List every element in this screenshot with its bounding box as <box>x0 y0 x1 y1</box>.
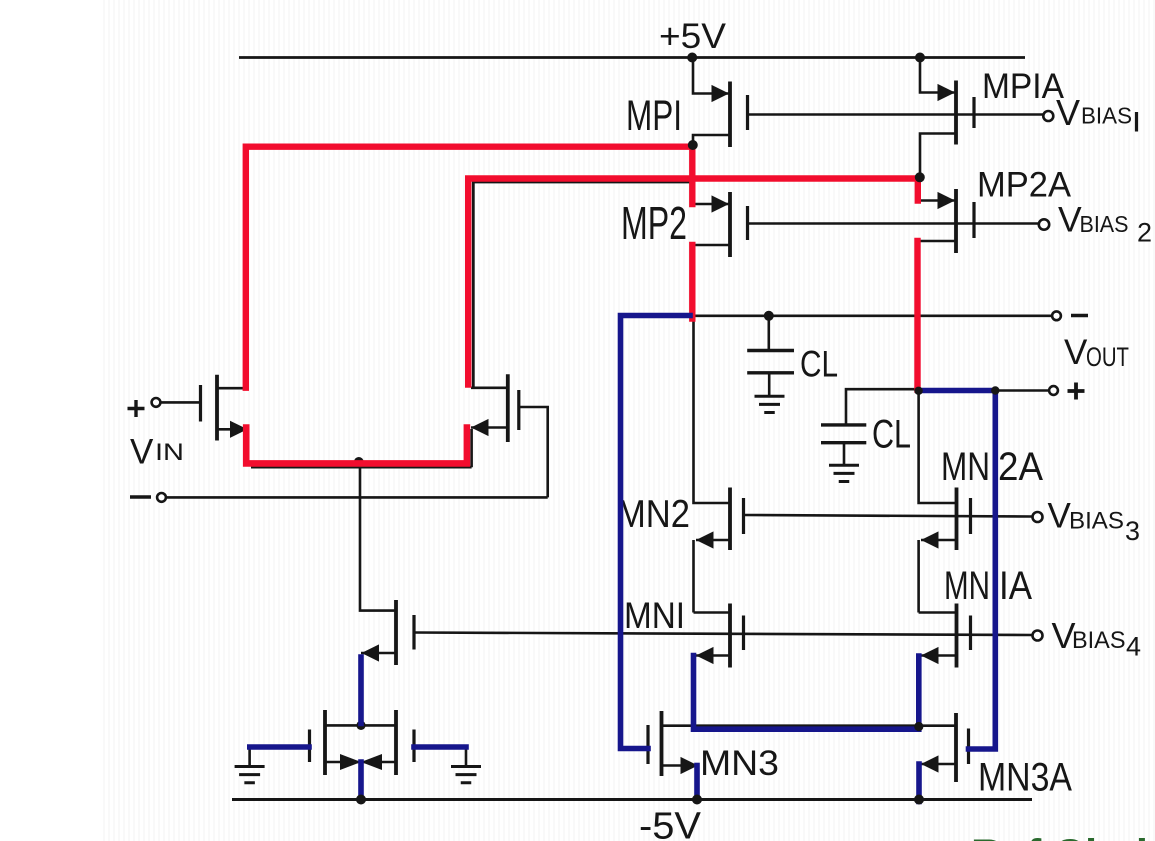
junction Vout+ / MN2A drain <box>914 387 922 395</box>
svg-text:IN: IN <box>155 439 184 466</box>
wire: blue MN3A source to -5V <box>916 764 922 802</box>
junction Vout+ / blue corner <box>991 386 999 394</box>
capacitor CL (Vout+) <box>821 389 919 465</box>
svg-text:2A: 2A <box>998 445 1043 489</box>
wire: mirror drains join <box>325 724 396 727</box>
svg-text:2: 2 <box>1137 218 1152 248</box>
transistor M-tail (tail current source) <box>360 463 414 665</box>
svg-text:MN3A: MN3A <box>978 756 1072 800</box>
wire: gate line MN2/MN2A to VBIAS3 <box>744 515 1033 517</box>
svg-text:BIAS: BIAS <box>1069 508 1124 535</box>
svg-text:V: V <box>1064 333 1088 372</box>
transistor M-in-left (diff pair) <box>201 375 248 441</box>
wire: gate of right input down to - input line <box>519 407 548 497</box>
svg-text:IA: IA <box>999 564 1032 608</box>
wire: blue left mirror gate to ground <box>250 744 309 750</box>
svg-text:MN3: MN3 <box>700 744 779 783</box>
wire: red net differential pair sources <box>246 428 467 464</box>
minus sign VIN- <box>130 495 151 498</box>
wire: blue net Vout- to MN3 gate <box>621 316 691 749</box>
svg-text:V: V <box>1048 497 1072 536</box>
plus sign VIN+ <box>128 400 145 417</box>
wire: blue net Vout+ to MN3A gate <box>919 391 996 750</box>
-5V rail <box>232 798 1032 801</box>
wire: black ink under red at source corner <box>251 429 472 467</box>
svg-text:MN: MN <box>944 564 990 608</box>
ground symbol CL left <box>755 396 785 412</box>
transistor MP2A <box>918 189 974 253</box>
ground symbol left <box>235 767 265 783</box>
junction MP1A drain / red net <box>915 172 925 182</box>
wire: mirror sources join (bowtie arrows) <box>325 761 396 764</box>
minus sign Vout- <box>1071 314 1088 318</box>
junction tail tap on red wire <box>354 457 364 467</box>
terminal VBIAS2 <box>1039 219 1049 229</box>
transistor M-in-right (diff pair) <box>471 374 548 497</box>
svg-text:V: V <box>130 433 154 472</box>
transistor MN1 <box>694 604 744 668</box>
wire: Vout- line <box>690 314 1052 317</box>
svg-text:3: 3 <box>1125 516 1140 546</box>
ground symbol right <box>451 767 481 783</box>
transistor M-bias-right (grounded gate) <box>396 710 466 775</box>
wire: Vout+ line <box>995 389 1049 392</box>
svg-text:+5V: +5V <box>659 17 727 56</box>
transistor MP1A <box>920 58 974 178</box>
wire: blue mirror sources to -5V <box>358 762 364 800</box>
terminal Vout+ <box>1049 386 1058 395</box>
junction +5V / MP1A source <box>915 53 925 63</box>
wire: black ink MN3 drain to MN3A drain <box>662 724 957 727</box>
wire: gate line MP2/MP2A to VBIAS2 <box>748 222 1039 225</box>
wire: blue MN3 source to -5V <box>694 766 700 801</box>
wire: red net MP1 drain to left input drain (gate of MP1/MP1A mirror) <box>246 147 693 388</box>
svg-text:MN: MN <box>941 445 990 489</box>
wire: blue tail source to mirror drains <box>358 657 364 724</box>
transistor MN2 <box>694 316 744 613</box>
ground symbol CL right <box>829 465 859 481</box>
junction +5V / MP1 source <box>687 53 697 63</box>
svg-text:MPI: MPI <box>626 92 682 140</box>
wire: blue net MN1 source / MN3 drain / MN1A source <box>694 656 919 730</box>
+5V rail <box>239 56 1025 59</box>
svg-text:MP2: MP2 <box>621 197 687 249</box>
terminal VBIAS4 <box>1033 631 1043 641</box>
svg-text:MN2: MN2 <box>617 493 690 536</box>
junction MN3A drain <box>914 722 923 731</box>
junction MP1 drain / red net <box>688 140 698 150</box>
wire: red net MP2A drain to Vout+ <box>914 241 920 390</box>
svg-text:4: 4 <box>1126 632 1141 662</box>
junction -5V / mirror source <box>356 795 366 805</box>
capacitor CL (Vout-) <box>747 316 794 397</box>
wire: gate line MP1/MP1A to VBIAS1 <box>748 113 1044 116</box>
wire: blue right mirror gate to ground <box>414 744 466 750</box>
svg-text:BIAS: BIAS <box>1080 211 1129 237</box>
terminal VIN+ <box>161 401 201 404</box>
wire: red net right input drain to MP2A source <box>468 179 918 385</box>
transistor MP2 <box>693 192 748 257</box>
svg-text:BIAS: BIAS <box>1081 103 1132 129</box>
wire: black ink under red at right drain corner <box>473 182 691 388</box>
svg-text:BIAS: BIAS <box>1072 627 1126 654</box>
svg-text:OUT: OUT <box>1086 342 1129 372</box>
terminal VBIAS3 <box>1033 512 1043 522</box>
terminal VBIAS1 <box>1043 111 1053 121</box>
svg-text:Ref Chsl: Ref Chsl <box>971 831 1148 841</box>
svg-text:MPIA: MPIA <box>982 67 1065 106</box>
terminal Vout- <box>1052 311 1061 320</box>
svg-text:CL: CL <box>800 344 838 385</box>
transistor MN1A <box>919 604 971 668</box>
svg-text:V: V <box>1056 92 1080 133</box>
svg-text:V: V <box>1058 200 1082 240</box>
svg-text:CL: CL <box>872 413 911 457</box>
wire: red net MP2 drain to Vout- <box>689 245 695 319</box>
transistor MP1 <box>693 58 748 148</box>
svg-text:-5V: -5V <box>639 806 702 841</box>
transistor MN3 <box>648 711 698 776</box>
terminal VIN- <box>166 496 548 499</box>
junction mirror drains <box>356 721 365 730</box>
wire: gate line Mtail/MN1/MN1A to VBIAS4 <box>414 633 1033 636</box>
svg-text:MNI: MNI <box>624 595 685 636</box>
transistor MN3A <box>921 713 969 782</box>
junction CL left tap <box>764 311 774 321</box>
transistor MN2A <box>919 391 971 613</box>
transistor M-bias-left (grounded gate) <box>250 710 325 775</box>
junction -5V / MN3A source <box>914 795 924 805</box>
plus sign Vout+ <box>1068 383 1085 400</box>
junction -5V / MN3 source <box>692 795 702 805</box>
